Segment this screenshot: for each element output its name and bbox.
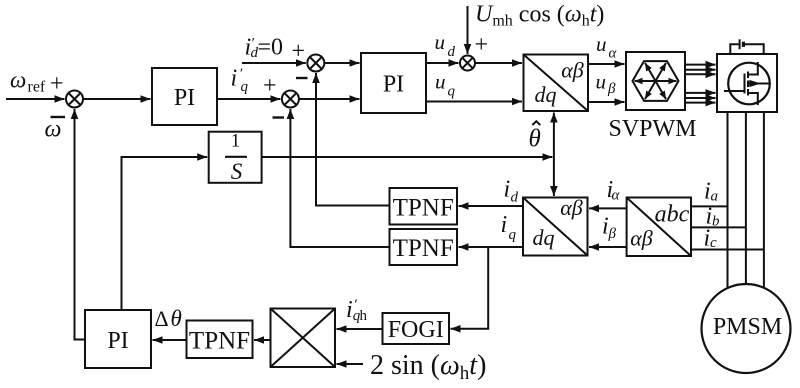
svg-text:TPNF: TPNF	[393, 194, 454, 221]
label i_c	[704, 226, 718, 252]
wire injection input	[467, 6, 469, 54]
label i_a	[704, 179, 718, 205]
wire TPNF3 to PI4	[153, 339, 187, 341]
wire gate signals top group	[685, 65, 716, 75]
block FOGI	[383, 313, 450, 344]
wire multiplier to TPNF3	[254, 339, 271, 341]
wire theta_hat down to current block	[553, 157, 555, 196]
svg-text:=0: =0	[258, 35, 284, 61]
svg-text:PI: PI	[174, 85, 195, 111]
wire i_q to TPNF2	[459, 246, 524, 248]
label u_beta	[596, 69, 617, 97]
svg-text:q: q	[241, 79, 249, 95]
wire i_d to TPNF1	[459, 205, 524, 207]
fraction bar 1/S	[225, 156, 247, 158]
wire i_a tap	[691, 205, 728, 207]
wire i_beta	[589, 246, 627, 248]
svg-text:α: α	[609, 46, 618, 62]
block TPNF2	[390, 229, 458, 265]
svg-text:S: S	[231, 159, 243, 184]
svg-text:2 sin (ωht): 2 sin (ωht)	[370, 350, 486, 384]
block TPNF3	[187, 321, 253, 359]
label abc block	[630, 202, 689, 251]
block TPNF1	[390, 188, 458, 225]
block PI4 position regulator	[85, 310, 151, 368]
wire theta_hat horizontal	[262, 156, 553, 158]
wire S1 to PI speed	[83, 98, 151, 100]
wire 2sin input	[337, 363, 364, 365]
motor PMSM circle	[702, 284, 791, 373]
svg-text:d: d	[511, 190, 519, 206]
label delta_theta	[155, 306, 182, 331]
wire i_c tap	[691, 249, 764, 251]
SVPWM hexagon icon	[633, 61, 679, 101]
svg-text:TPNF: TPNF	[393, 235, 454, 262]
svg-text:+: +	[475, 32, 489, 58]
svg-text:ω: ω	[45, 117, 62, 143]
svg-text:i: i	[504, 177, 511, 203]
svg-text:abc: abc	[655, 202, 690, 228]
svg-text:PI: PI	[107, 328, 128, 354]
wire FOGI to multiplier	[337, 328, 383, 330]
summing junction S1 (speed)	[66, 91, 83, 108]
svg-text:a: a	[711, 189, 719, 205]
wire PI speed to S3	[217, 98, 280, 100]
wire phase line b	[745, 112, 747, 285]
svg-text:i: i	[346, 297, 353, 323]
label i_alpha	[607, 177, 621, 204]
minus sign S3	[273, 116, 285, 118]
svg-text:u: u	[596, 32, 607, 56]
svg-text:u: u	[435, 69, 446, 93]
wire PI4 feedback to S1	[75, 109, 86, 340]
svg-text:i: i	[501, 212, 508, 238]
wire i_alpha	[589, 207, 627, 209]
svg-text:FOGI: FOGI	[388, 317, 444, 343]
label dq block current	[533, 195, 583, 250]
svg-text:1: 1	[231, 131, 241, 152]
block PI speed regulator	[152, 68, 217, 125]
wire gate signals bottom group	[685, 93, 716, 103]
block PI current regulator	[361, 53, 426, 113]
wire i_b tap	[691, 226, 746, 228]
svg-text:+: +	[263, 73, 277, 99]
label iq_ref	[231, 66, 277, 100]
label u_alpha	[596, 32, 618, 62]
svg-text:+: +	[292, 39, 306, 65]
svg-text:αβ: αβ	[561, 58, 584, 83]
wire ud to S4	[426, 62, 459, 64]
label uq	[435, 69, 456, 99]
svg-text:α: α	[612, 188, 621, 204]
theta hat accent	[532, 121, 540, 125]
label dq block voltage	[535, 58, 584, 108]
svg-text:u: u	[435, 30, 446, 54]
svg-text:β: β	[607, 81, 616, 97]
svg-text:Δ: Δ	[155, 306, 169, 331]
label omega_ref	[10, 68, 64, 98]
wire phase line c	[763, 112, 765, 288]
block alphabeta to dq (current)	[523, 198, 588, 256]
wire TPNF2 feedback to S3	[290, 109, 389, 247]
label iqh	[346, 297, 368, 324]
block multiplier	[271, 309, 336, 368]
wire uq	[426, 101, 522, 103]
wire theta_hat up to voltage block	[553, 113, 555, 158]
svg-text:dq: dq	[535, 82, 557, 107]
label i_d	[504, 177, 519, 206]
summing junction S2 (d current)	[307, 55, 324, 72]
label ud	[435, 30, 456, 60]
wire i_q branch to FOGI	[451, 247, 489, 329]
wire TPNF1 feedback to S2	[316, 73, 390, 206]
svg-text:β: β	[608, 226, 617, 242]
svg-text:θ: θ	[529, 126, 541, 153]
battery DC link	[730, 39, 763, 54]
svg-text:TPNF: TPNF	[189, 328, 250, 355]
svg-text:dq: dq	[533, 225, 555, 250]
svg-text:q: q	[509, 227, 517, 243]
summing junction S3 (q current)	[282, 91, 299, 108]
svg-text:PI: PI	[383, 72, 404, 98]
svg-text:d: d	[448, 44, 456, 60]
summing junction S4 (injection)	[460, 56, 475, 71]
transistor circle	[728, 63, 770, 105]
minus sign S1	[51, 116, 66, 118]
svg-text:PMSM: PMSM	[713, 314, 782, 340]
svg-text:ref: ref	[28, 79, 46, 96]
block dq to alphabeta (voltage)	[524, 55, 589, 112]
svg-text:c: c	[710, 235, 717, 251]
block SVPWM	[626, 52, 685, 110]
wire PI4 top branch to integrator	[122, 157, 208, 310]
svg-text:q: q	[448, 84, 456, 100]
svg-text:αβ: αβ	[560, 195, 583, 220]
wire phase line a	[727, 112, 729, 288]
svg-text:i: i	[231, 66, 238, 92]
label i_q	[501, 212, 517, 243]
wire S3 to PI current	[299, 98, 360, 100]
wire id=0 input	[242, 62, 306, 64]
minus sign S2	[296, 77, 308, 79]
svg-text:b: b	[712, 214, 720, 230]
svg-text:h: h	[360, 308, 368, 324]
svg-text:Umh cos (ωht): Umh cos (ωht)	[475, 2, 604, 30]
wire u_beta	[588, 101, 625, 103]
label id_ref=0	[245, 35, 306, 65]
svg-text:SVPWM: SVPWM	[608, 116, 696, 142]
wire omega_ref input	[6, 98, 65, 100]
block abc to alphabeta	[627, 198, 691, 257]
wire S2 to PI current	[324, 62, 359, 64]
wire S4 to dq/ab block	[475, 62, 522, 64]
svg-text:θ: θ	[171, 306, 182, 331]
transistor MOSFET symbol	[724, 62, 770, 105]
block integrator 1/S	[209, 132, 262, 183]
block inverter	[717, 54, 777, 112]
svg-text:+: +	[50, 71, 64, 97]
svg-text:αβ: αβ	[630, 226, 653, 251]
label i_beta	[602, 214, 617, 243]
svg-text:ω: ω	[10, 68, 26, 93]
label i_b	[706, 204, 721, 230]
wire u_alpha	[588, 63, 625, 65]
svg-text:u: u	[596, 69, 607, 93]
